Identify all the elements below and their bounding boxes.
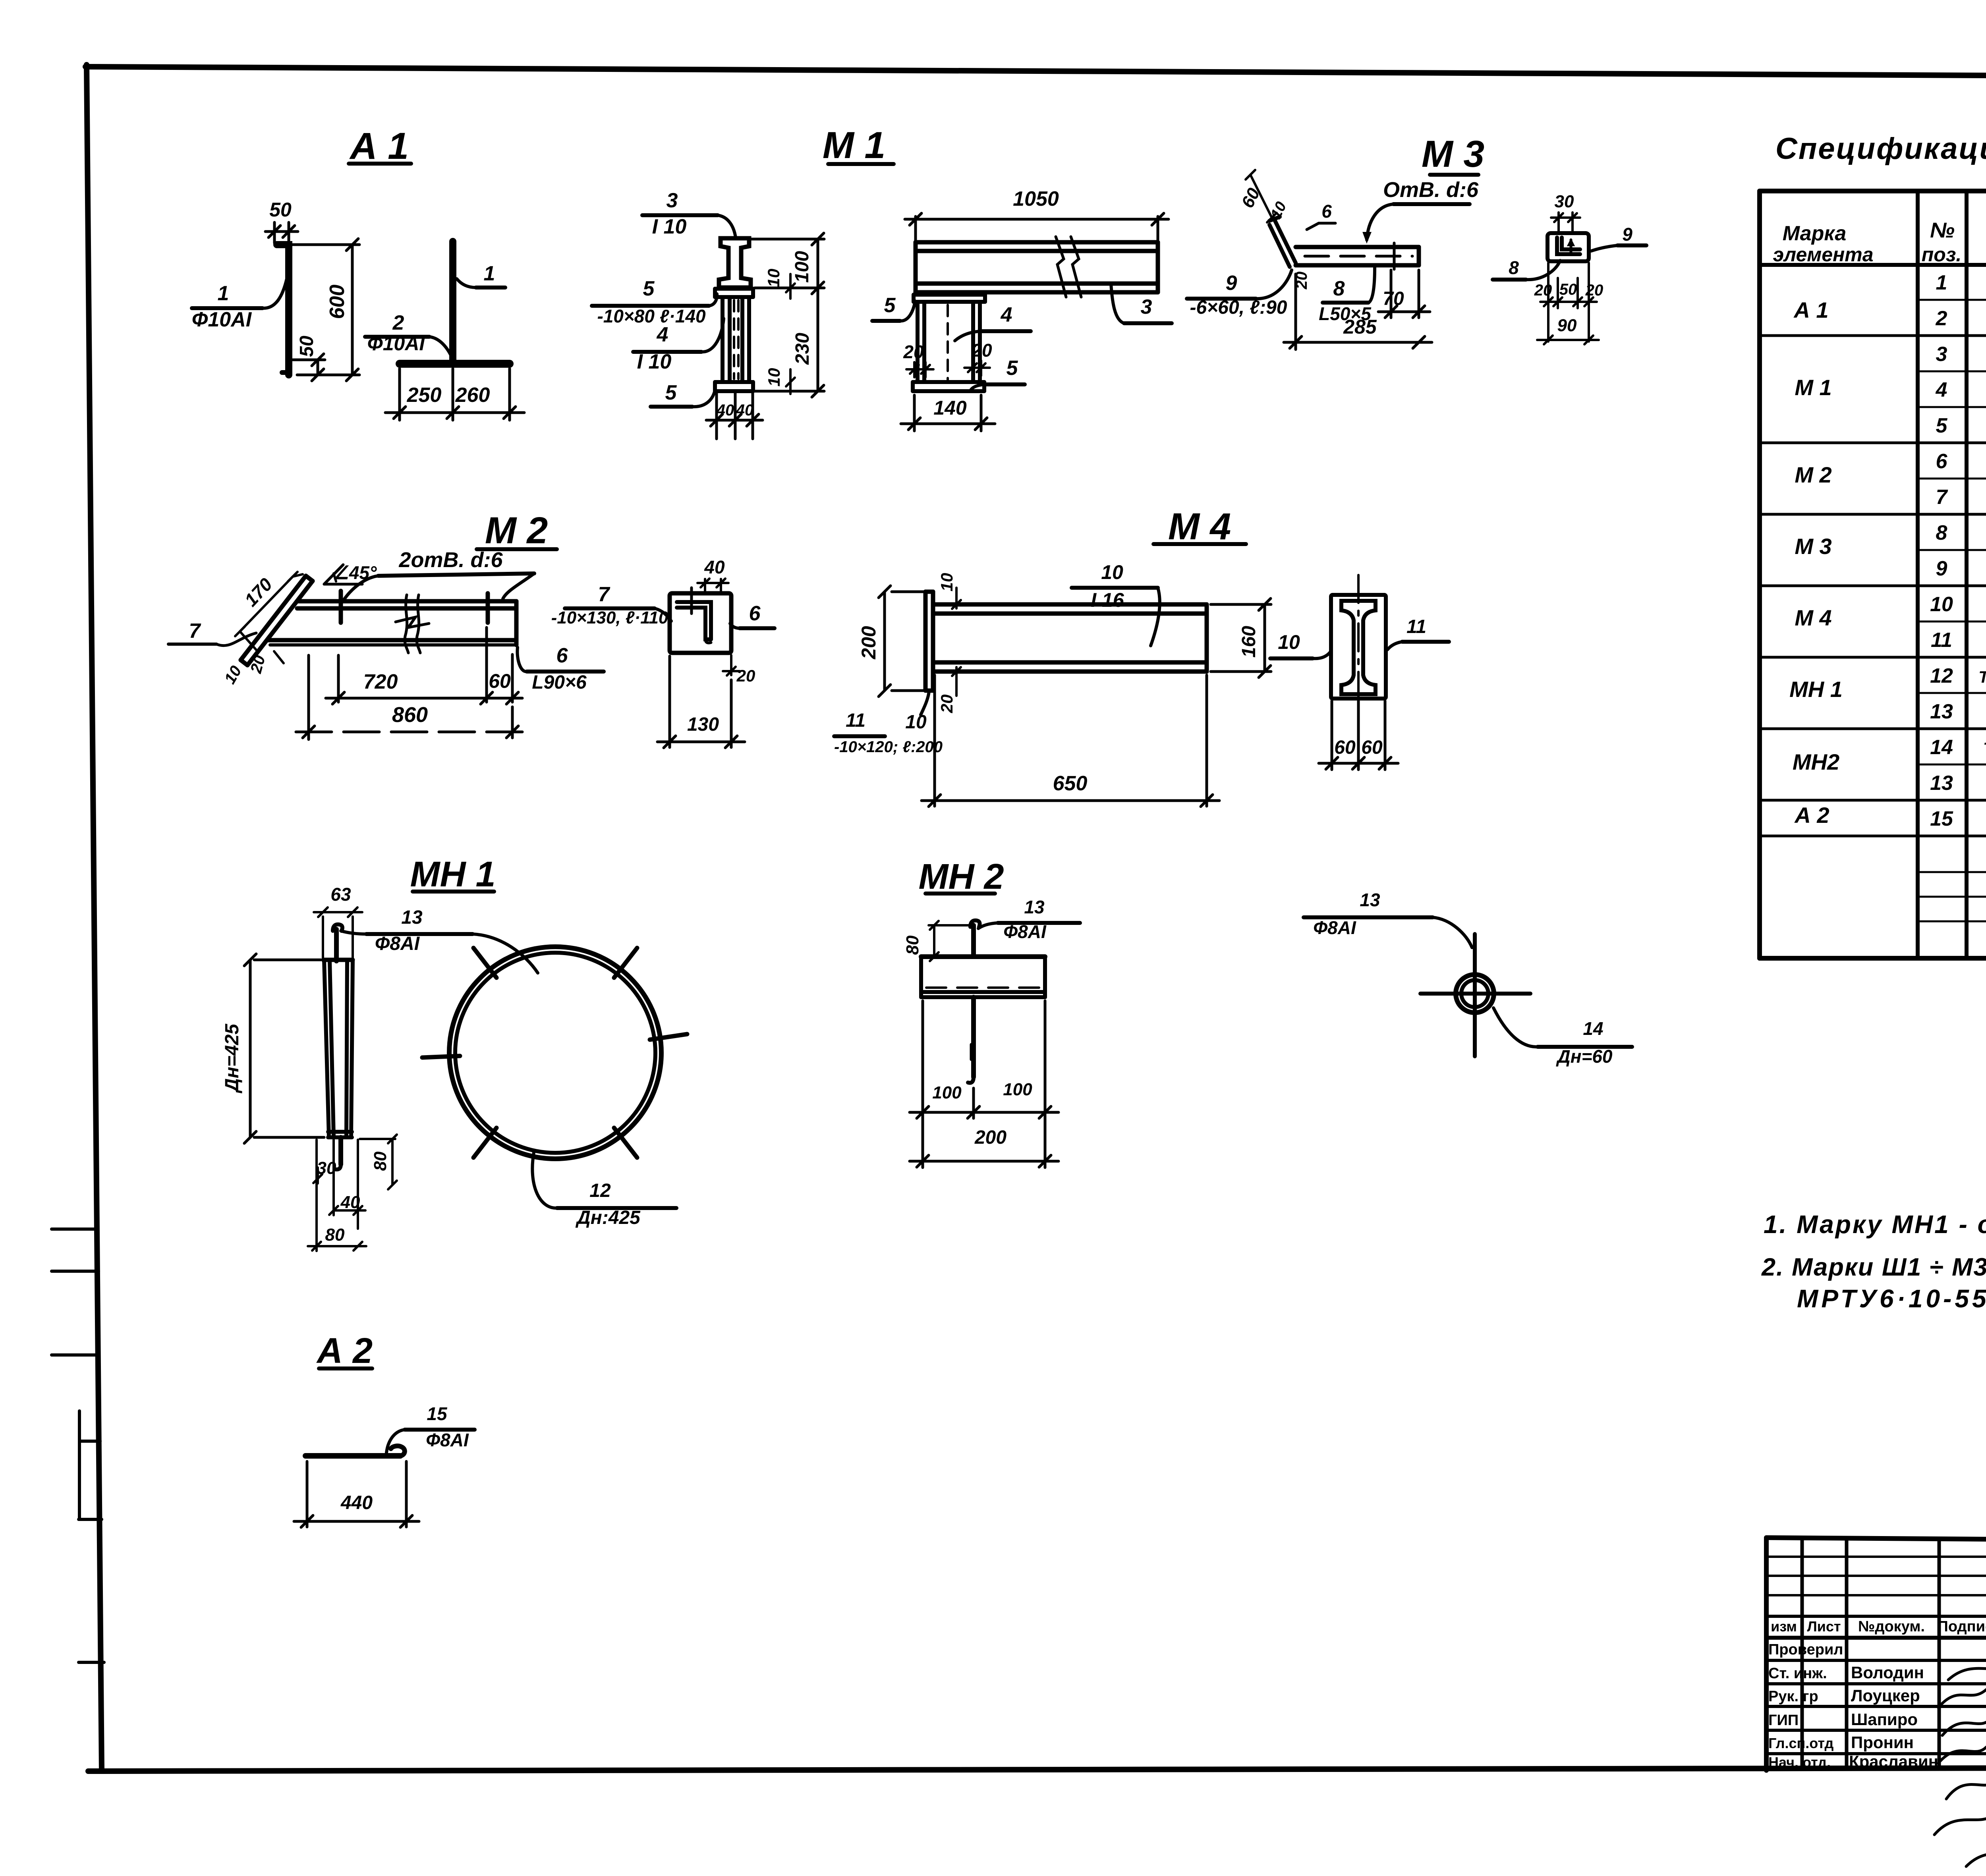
svg-text:70: 70 bbox=[1383, 288, 1404, 309]
M1 dim 40/40 bbox=[715, 393, 718, 439]
svg-text:100: 100 bbox=[792, 251, 813, 283]
svg-text:Дн:425: Дн:425 bbox=[575, 1207, 641, 1228]
svg-text:7: 7 bbox=[189, 620, 201, 643]
MH2 plan cross vertical bbox=[1473, 934, 1477, 1056]
svg-text:МН 2: МН 2 bbox=[918, 857, 1004, 897]
svg-text:ГИП: ГИП bbox=[1768, 1712, 1799, 1729]
title block left table blank row lines bbox=[1766, 1556, 1986, 1558]
svg-text:100: 100 bbox=[932, 1083, 962, 1102]
svg-text:60: 60 bbox=[489, 670, 511, 692]
M2 angle bar pos.6 top edge bbox=[299, 599, 516, 604]
svg-text:10: 10 bbox=[764, 269, 783, 288]
svg-text:20: 20 bbox=[247, 653, 269, 675]
A1 dim 600 bbox=[292, 243, 359, 246]
M2 dim 720 bbox=[337, 655, 340, 702]
svg-text:5: 5 bbox=[665, 381, 677, 404]
svg-text:1. Марку МН1 - оцинковать: 1. Марку МН1 - оцинковать bbox=[1764, 1210, 1986, 1239]
M3 dim 285 bbox=[1294, 274, 1297, 349]
svg-text:650: 650 bbox=[1053, 772, 1088, 795]
M2 dim 60 bbox=[511, 654, 514, 702]
svg-text:20: 20 bbox=[937, 695, 956, 714]
svg-text:8: 8 bbox=[1936, 521, 1947, 544]
svg-text:Пронин: Пронин bbox=[1851, 1733, 1914, 1752]
svg-text:2отВ. d:6: 2отВ. d:6 bbox=[398, 548, 503, 572]
svg-text:МН2: МН2 bbox=[1793, 749, 1839, 774]
svg-text:Ф10АІ: Ф10АІ bbox=[192, 308, 252, 331]
svg-text:60: 60 bbox=[1238, 185, 1264, 211]
svg-text:М 3: М 3 bbox=[1422, 133, 1484, 175]
MH1 dim Dn425 left bbox=[254, 959, 321, 961]
svg-text:13: 13 bbox=[401, 907, 423, 928]
svg-text:-6×60, ℓ:90: -6×60, ℓ:90 bbox=[1190, 297, 1287, 318]
svg-text:90: 90 bbox=[1557, 316, 1577, 335]
M2 hole cross 2 bbox=[486, 593, 490, 623]
M1 beam pos.3 elevation bbox=[916, 240, 1158, 245]
svg-text:100: 100 bbox=[1003, 1080, 1032, 1099]
svg-text:МН 1: МН 1 bbox=[410, 855, 495, 894]
svg-text:6: 6 bbox=[1321, 201, 1332, 222]
M2 hole cross 1 bbox=[339, 591, 343, 623]
svg-text:13: 13 bbox=[1360, 890, 1380, 910]
svg-text:140: 140 bbox=[933, 397, 967, 419]
svg-text:М 4: М 4 bbox=[1168, 506, 1231, 548]
svg-text:изм: изм bbox=[1771, 1618, 1797, 1635]
svg-text:14: 14 bbox=[1583, 1018, 1603, 1039]
svg-text:10: 10 bbox=[1278, 631, 1300, 653]
M1 dim 100/230 right bbox=[751, 238, 824, 241]
svg-text:50: 50 bbox=[269, 199, 292, 221]
MH2 plan circles bbox=[1456, 975, 1494, 1013]
svg-text:260: 260 bbox=[455, 384, 490, 407]
M1 column pos.4 I10 bbox=[721, 297, 724, 382]
A1 dim 250/260 bbox=[398, 369, 401, 420]
svg-text:170: 170 bbox=[240, 574, 276, 610]
svg-text:Ф8АІ: Ф8АІ bbox=[426, 1430, 469, 1450]
svg-text:15: 15 bbox=[427, 1403, 448, 1424]
left margin tick 1 bbox=[52, 1228, 97, 1231]
svg-text:5: 5 bbox=[884, 294, 896, 317]
M4 section axis line bbox=[1357, 575, 1360, 718]
M4 section dim 60/60 bbox=[1331, 701, 1333, 770]
svg-text:2: 2 bbox=[392, 311, 404, 334]
M3 angle bar pos.8 bbox=[1296, 245, 1419, 249]
svg-text:2: 2 bbox=[1936, 307, 1947, 330]
svg-text:Краславин: Краславин bbox=[1849, 1752, 1938, 1771]
M1 plate pos.5 bottom right bbox=[913, 380, 984, 384]
svg-text:І 10: І 10 bbox=[637, 350, 672, 373]
spec table column lines bbox=[1916, 191, 1920, 958]
svg-text:4: 4 bbox=[1001, 303, 1012, 326]
M3 section angle profile bbox=[1557, 237, 1580, 254]
svg-text:6: 6 bbox=[749, 602, 761, 625]
svg-text:860: 860 bbox=[392, 703, 428, 727]
svg-text:63: 63 bbox=[330, 884, 351, 905]
svg-text:9: 9 bbox=[1936, 557, 1947, 580]
svg-text:20: 20 bbox=[736, 666, 755, 685]
svg-text:10: 10 bbox=[905, 712, 927, 733]
svg-text:3: 3 bbox=[667, 189, 678, 212]
M1 plate pos.5 top bbox=[715, 287, 753, 291]
A1 plate bar plan bbox=[400, 360, 510, 368]
svg-text:А 2: А 2 bbox=[316, 1331, 373, 1371]
svg-text:М 1: М 1 bbox=[823, 124, 885, 166]
M1 dim 140 bbox=[913, 395, 916, 431]
svg-text:80: 80 bbox=[371, 1151, 390, 1171]
svg-text:М 1: М 1 bbox=[1795, 375, 1831, 400]
spec table header bottom line bbox=[1760, 263, 1986, 267]
svg-text:10: 10 bbox=[765, 368, 783, 387]
M3 dim 70 bbox=[1390, 270, 1393, 318]
left margin tick 4 bbox=[79, 1661, 104, 1664]
svg-text:11: 11 bbox=[1406, 616, 1426, 637]
M1 plate pos.5 under beam bbox=[914, 293, 985, 297]
svg-text:1050: 1050 bbox=[1013, 187, 1059, 210]
svg-text:І 10: І 10 bbox=[652, 215, 687, 238]
M3 dim 60 along strip bbox=[1250, 175, 1272, 218]
svg-text:8: 8 bbox=[1509, 257, 1519, 278]
left margin tick 3 bbox=[52, 1353, 99, 1357]
M2 strip pos.7 diagonal bbox=[241, 576, 306, 660]
svg-text:11: 11 bbox=[846, 710, 865, 731]
svg-text:20: 20 bbox=[1585, 282, 1603, 299]
MH1 radial rebar ticks bbox=[650, 1034, 687, 1040]
page border left bbox=[87, 65, 102, 1770]
svg-text:10: 10 bbox=[1101, 561, 1123, 583]
svg-text:-10×120; ℓ:200: -10×120; ℓ:200 bbox=[834, 738, 943, 756]
M3 section arrow bbox=[1570, 240, 1573, 254]
M2 dim 860 bbox=[307, 655, 310, 739]
svg-text:60: 60 bbox=[1361, 737, 1383, 758]
M4 plate pos.11 bbox=[923, 592, 928, 691]
svg-text:13: 13 bbox=[1930, 700, 1953, 723]
svg-text:20: 20 bbox=[971, 340, 992, 361]
svg-text:5: 5 bbox=[1007, 357, 1018, 380]
M3 section dims 20/50/20 and 90 bbox=[1547, 263, 1549, 342]
svg-text:Ст. инж.: Ст. инж. bbox=[1768, 1665, 1827, 1682]
svg-text:5: 5 bbox=[1936, 414, 1948, 437]
svg-text:6: 6 bbox=[556, 644, 568, 667]
svg-text:элемента: элемента bbox=[1773, 243, 1873, 266]
svg-text:Труба Дн:425×4: Труба Дн:425×4 bbox=[1978, 668, 1986, 686]
svg-text:720: 720 bbox=[363, 670, 398, 693]
svg-text:4: 4 bbox=[1936, 378, 1947, 401]
svg-text:7: 7 bbox=[1936, 486, 1948, 509]
svg-text:12: 12 bbox=[589, 1180, 611, 1201]
svg-text:200: 200 bbox=[974, 1127, 1007, 1148]
title block signatures bbox=[1948, 1663, 1986, 1680]
svg-text:80: 80 bbox=[325, 1225, 345, 1245]
svg-text:5: 5 bbox=[643, 277, 655, 300]
svg-text:М 4: М 4 bbox=[1795, 605, 1831, 630]
svg-text:М 3: М 3 bbox=[1795, 534, 1831, 559]
svg-text:М 2: М 2 bbox=[485, 510, 548, 552]
M4 beam pos.10 I16 bbox=[933, 602, 1207, 607]
svg-text:ОтВ. d:6: ОтВ. d:6 bbox=[1383, 178, 1479, 202]
spec table row lines bbox=[1918, 299, 1986, 301]
svg-text:10: 10 bbox=[937, 573, 956, 592]
svg-text:Ф10АІ: Ф10АІ bbox=[367, 332, 425, 355]
svg-text:Подпись: Подпись bbox=[1938, 1618, 1986, 1635]
svg-text:Марка: Марка bbox=[1783, 222, 1847, 245]
svg-text:Спецификация металла на одн: Спецификация металла на одну марку bbox=[1775, 132, 1986, 166]
svg-text:МРТУ6·10-559-66 за 3 раза.: МРТУ6·10-559-66 за 3 раза. bbox=[1797, 1284, 1986, 1313]
svg-text:А 1: А 1 bbox=[1793, 297, 1828, 322]
A1 dim 50 bottom bbox=[293, 359, 325, 361]
svg-text:30: 30 bbox=[1555, 192, 1574, 211]
svg-text:Шапиро: Шапиро bbox=[1851, 1710, 1918, 1729]
svg-text:13: 13 bbox=[1930, 772, 1953, 795]
svg-text:130: 130 bbox=[687, 714, 719, 735]
svg-text:6: 6 bbox=[1936, 450, 1948, 473]
M1 I-beam pos.3 cross section bbox=[719, 238, 751, 288]
A1 rebar pos.1 elevation bbox=[277, 245, 289, 375]
M2 section angle profile bbox=[677, 602, 711, 639]
svg-text:7: 7 bbox=[598, 583, 610, 606]
svg-text:А 1: А 1 bbox=[349, 125, 409, 167]
M2 section box bbox=[670, 593, 731, 653]
svg-text:12: 12 bbox=[1930, 664, 1953, 687]
svg-text:10: 10 bbox=[1930, 593, 1953, 616]
svg-text:2. Марки Ш1 ÷ М3 и МН2 - окрас: 2. Марки Ш1 ÷ М3 и МН2 - окрасить эмалью… bbox=[1761, 1253, 1986, 1281]
M1 dim 1050 bbox=[914, 216, 917, 245]
svg-text:14: 14 bbox=[1930, 736, 1953, 759]
svg-text:50: 50 bbox=[296, 336, 317, 357]
title block outer top line bbox=[1766, 1538, 1986, 1543]
svg-text:Ф8АІ: Ф8АІ bbox=[1003, 921, 1047, 942]
svg-text:40: 40 bbox=[704, 557, 725, 577]
M1 column pos.4 under beam bbox=[916, 302, 920, 382]
svg-text:-10×80 ℓ·140: -10×80 ℓ·140 bbox=[597, 306, 706, 326]
M3 anchor strip pos.9 diagonal bbox=[1275, 221, 1296, 263]
M2 bar break mark bbox=[405, 595, 408, 653]
M3 section box bbox=[1547, 233, 1589, 261]
title block header row line bbox=[1766, 1636, 1986, 1640]
svg-text:Лист: Лист bbox=[1807, 1618, 1841, 1635]
svg-text:40: 40 bbox=[716, 401, 734, 419]
svg-text:13: 13 bbox=[1024, 897, 1045, 917]
A2 rebar pos.15 bbox=[305, 1453, 400, 1459]
spec table empty row lines bbox=[1918, 871, 1986, 873]
svg-text:3: 3 bbox=[1141, 295, 1152, 318]
M4 dim 160 right bbox=[1211, 603, 1271, 606]
MH1 pipe plan inner circle bbox=[455, 953, 655, 1153]
svg-text:Труба Дн:60×4: Труба Дн:60×4 bbox=[1983, 739, 1986, 758]
M2 angle 45 annotation bbox=[324, 583, 362, 586]
svg-text:9: 9 bbox=[1226, 272, 1237, 295]
MH2 rebar pos.13 top bbox=[971, 925, 976, 957]
svg-text:20: 20 bbox=[1534, 282, 1552, 299]
svg-text:285: 285 bbox=[1343, 316, 1377, 338]
MH2 dims 100/100 bbox=[922, 1001, 924, 1168]
M3 hole center tick bbox=[1393, 243, 1396, 269]
svg-text:3: 3 bbox=[1936, 343, 1947, 366]
svg-text:80: 80 bbox=[903, 935, 922, 955]
svg-text:Дн=60: Дн=60 bbox=[1555, 1046, 1612, 1067]
MH1 rebar pos.13 top hook bbox=[334, 929, 339, 961]
M1 beam break mark bbox=[1056, 237, 1066, 297]
svg-text:∠45°: ∠45° bbox=[333, 562, 377, 583]
svg-text:50: 50 bbox=[1559, 281, 1577, 298]
svg-text:Ф8АІ: Ф8АІ bbox=[375, 933, 420, 954]
svg-text:Ф8АІ: Ф8АІ bbox=[1313, 917, 1356, 938]
svg-text:8: 8 bbox=[1333, 277, 1345, 300]
page border bottom bbox=[88, 1767, 1986, 1771]
svg-text:-10×130, ℓ·110: -10×130, ℓ·110 bbox=[551, 608, 668, 627]
M4 section I-beam profile bbox=[1341, 601, 1376, 694]
svg-text:М 2: М 2 bbox=[1795, 462, 1831, 487]
svg-text:№: № bbox=[1930, 218, 1955, 242]
M4 dim 650 bbox=[933, 675, 936, 806]
MH2 rebar pos.13 below bbox=[971, 997, 976, 1077]
title block left table verticals bbox=[1764, 1538, 1769, 1770]
MH2 pipe pos.14 side view bbox=[921, 954, 1045, 959]
MH1 pipe plan outer circle bbox=[449, 947, 661, 1159]
M1 plate pos.5 bottom bbox=[715, 380, 753, 384]
MH1 pipe pos.12 side view bbox=[324, 960, 329, 1137]
svg-text:40: 40 bbox=[736, 401, 754, 419]
svg-text:15: 15 bbox=[1930, 807, 1953, 830]
A2 dim 440 bbox=[306, 1461, 309, 1527]
svg-text:440: 440 bbox=[340, 1492, 373, 1513]
svg-text:Володин: Володин bbox=[1851, 1663, 1924, 1682]
spec table group separator lines bbox=[1760, 334, 1986, 337]
svg-text:№докум.: №докум. bbox=[1858, 1618, 1925, 1635]
left margin bracket bbox=[78, 1411, 81, 1519]
svg-text:20: 20 bbox=[903, 342, 924, 362]
svg-text:1: 1 bbox=[484, 262, 495, 285]
page border top bbox=[85, 67, 1986, 78]
svg-text:Лоуцкер: Лоуцкер bbox=[1851, 1686, 1920, 1705]
svg-text:250: 250 bbox=[407, 384, 442, 407]
svg-text:230: 230 bbox=[792, 333, 813, 365]
svg-text:А 2: А 2 bbox=[1794, 803, 1829, 828]
M2 angle bar pos.6 bottom edge bbox=[269, 638, 516, 643]
svg-text:9: 9 bbox=[1622, 224, 1632, 245]
svg-text:МН 1: МН 1 bbox=[1789, 677, 1843, 702]
svg-text:Гл.сп.отд: Гл.сп.отд bbox=[1768, 1735, 1834, 1751]
svg-text:200: 200 bbox=[858, 626, 880, 660]
svg-text:І 16: І 16 bbox=[1091, 589, 1124, 611]
left margin tick 2 bbox=[52, 1270, 99, 1273]
svg-text:Нач. отд.: Нач. отд. bbox=[1768, 1754, 1831, 1770]
M2 dim 170 along strip bbox=[240, 577, 293, 631]
svg-text:600: 600 bbox=[326, 285, 349, 319]
spec table outer frame bbox=[1760, 189, 1986, 193]
svg-text:Дн=425: Дн=425 bbox=[222, 1023, 243, 1094]
title block row lines bbox=[1766, 1659, 1986, 1662]
svg-text:1: 1 bbox=[218, 282, 229, 305]
M2 section axis tick bbox=[690, 588, 693, 614]
svg-text:Рук. гр: Рук. гр bbox=[1768, 1688, 1818, 1705]
svg-text:L90×6: L90×6 bbox=[532, 672, 587, 693]
MH1 rebar pos.13 bottom hook bbox=[338, 1137, 343, 1164]
svg-text:Проверил: Проверил bbox=[1768, 1641, 1843, 1658]
svg-text:поз.: поз. bbox=[1922, 243, 1962, 266]
svg-text:60: 60 bbox=[1334, 737, 1356, 758]
svg-text:4: 4 bbox=[657, 323, 668, 346]
svg-text:1: 1 bbox=[1936, 271, 1947, 294]
MH2 plan cross horizontal bbox=[1420, 992, 1530, 996]
A1 rebar pos.1 plan bbox=[449, 241, 456, 364]
M2 bar right end cap bbox=[514, 601, 519, 645]
svg-text:10: 10 bbox=[221, 663, 245, 687]
svg-text:160: 160 bbox=[1238, 626, 1260, 658]
M4 dim 200 left bbox=[892, 591, 925, 593]
MH2 dim 200 bbox=[910, 1160, 1059, 1163]
svg-text:11: 11 bbox=[1931, 629, 1952, 652]
M4 section box bbox=[1331, 595, 1386, 699]
M2 section dim 130 bbox=[668, 656, 671, 747]
